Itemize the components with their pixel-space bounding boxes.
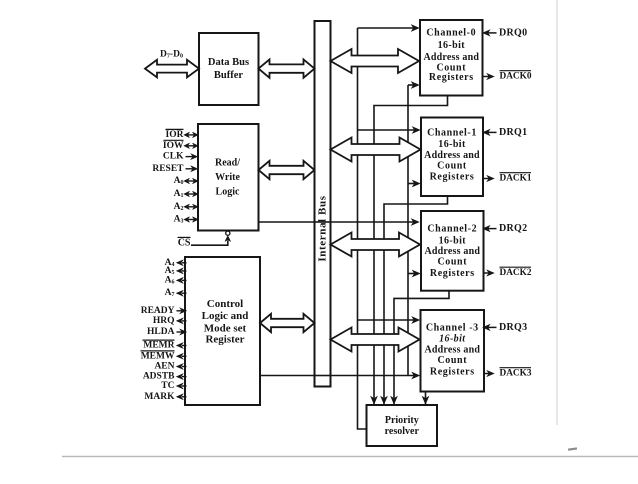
svg-text:Address and: Address and	[424, 345, 480, 356]
svg-text:HLDA: HLDA	[147, 327, 175, 337]
svg-text:Logic and: Logic and	[202, 310, 249, 322]
svg-text:DRQ1: DRQ1	[499, 127, 527, 138]
svg-text:HRQ: HRQ	[153, 316, 175, 326]
svg-text:Channel-0: Channel-0	[426, 27, 476, 38]
svg-text:Registers: Registers	[430, 172, 475, 183]
svg-text:Count: Count	[437, 161, 467, 172]
svg-text:resolver: resolver	[385, 426, 420, 437]
svg-text:IOW: IOW	[163, 141, 184, 151]
svg-text:Read/: Read/	[215, 158, 240, 169]
svg-text:MEMW: MEMW	[141, 351, 175, 361]
svg-text:Data Bus: Data Bus	[208, 57, 249, 68]
svg-text:DACK2: DACK2	[500, 268, 532, 278]
svg-text:DRQ2: DRQ2	[499, 223, 527, 234]
svg-text:MARK: MARK	[144, 392, 175, 402]
svg-text:DRQ0: DRQ0	[499, 27, 527, 38]
svg-text:Priority: Priority	[385, 415, 419, 426]
svg-text:Internal Bus: Internal Bus	[317, 195, 329, 261]
svg-text:Channel -3: Channel -3	[426, 323, 479, 334]
svg-text:RESET: RESET	[152, 164, 184, 174]
svg-text:DACK0: DACK0	[500, 72, 532, 82]
svg-text:TC: TC	[161, 381, 174, 391]
svg-text:Registers: Registers	[430, 268, 475, 279]
svg-text:AEN: AEN	[154, 362, 174, 372]
svg-text:READY: READY	[141, 306, 175, 316]
svg-text:Count: Count	[437, 355, 467, 366]
svg-text:MEMR: MEMR	[143, 341, 174, 351]
svg-text:Registers: Registers	[429, 72, 474, 83]
svg-text:Register: Register	[205, 334, 244, 346]
svg-text:DACK1: DACK1	[500, 174, 532, 184]
svg-text:Channel-2: Channel-2	[427, 224, 477, 235]
svg-text:DACK3: DACK3	[500, 369, 532, 379]
svg-text:CS: CS	[178, 238, 191, 249]
svg-text:Registers: Registers	[430, 367, 475, 378]
svg-text:Count: Count	[437, 257, 467, 268]
svg-text:DRQ3: DRQ3	[499, 322, 527, 333]
svg-text:16-bit: 16-bit	[438, 139, 466, 150]
svg-text:Address and: Address and	[424, 150, 480, 161]
svg-text:Buffer: Buffer	[214, 70, 243, 81]
svg-text:16-bit: 16-bit	[438, 40, 466, 51]
svg-text:IOR: IOR	[166, 130, 184, 140]
svg-text:Address and: Address and	[424, 246, 480, 257]
svg-text:Channel-1: Channel-1	[427, 128, 477, 139]
svg-text:16-bit: 16-bit	[439, 334, 466, 345]
svg-text:Mode set: Mode set	[204, 322, 247, 334]
svg-text:Write: Write	[215, 172, 240, 183]
svg-text:D7-D0: D7-D0	[160, 50, 183, 60]
svg-text:Logic: Logic	[216, 187, 240, 198]
svg-text:16-bit: 16-bit	[439, 236, 467, 247]
svg-text:CLK: CLK	[163, 152, 184, 162]
svg-text:Control: Control	[207, 298, 243, 310]
